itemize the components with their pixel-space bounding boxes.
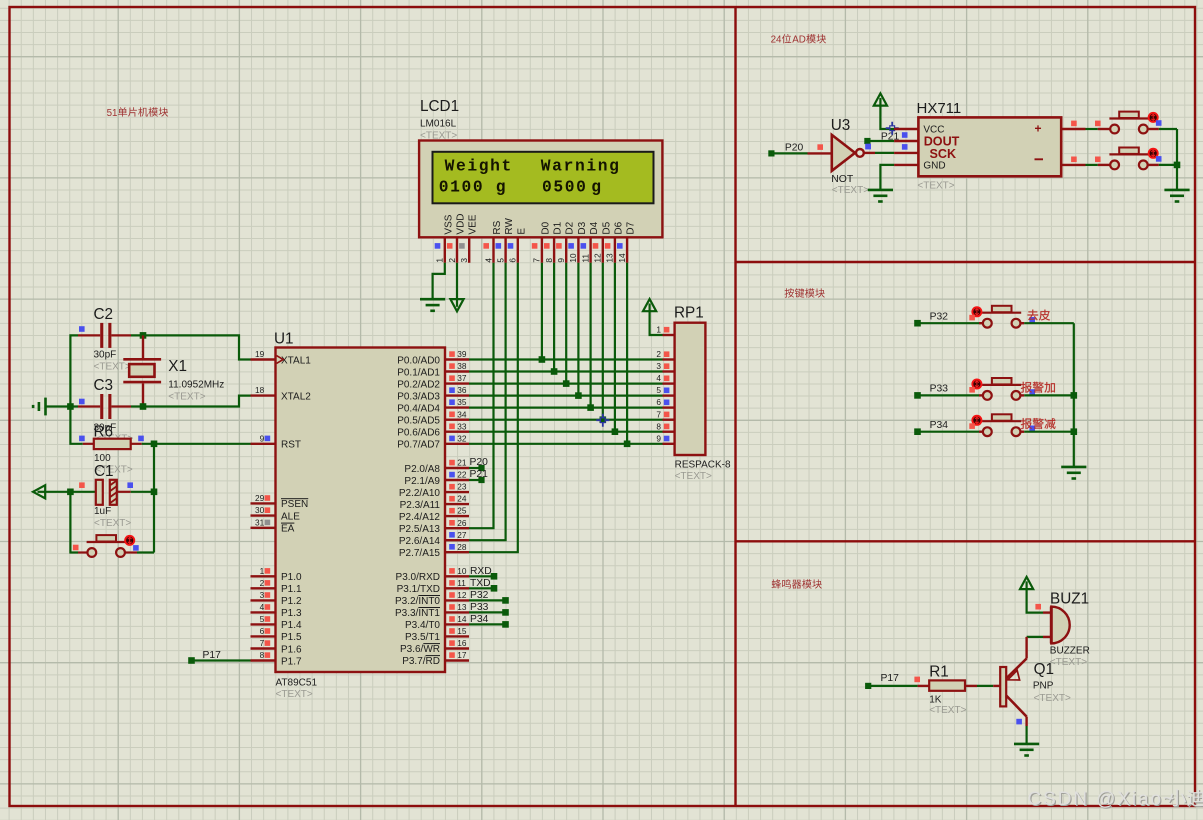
U1 pin 11 P3.1/TXD: [397, 578, 469, 595]
svg-text:P3.1/TXD: P3.1/TXD: [397, 584, 440, 595]
svg-text:D3: D3: [577, 221, 588, 234]
U1 pin 28 P2.7/A15: [399, 542, 469, 559]
LCD1 pin 6 E: [508, 228, 528, 263]
svg-text:P3.0/RXD: P3.0/RXD: [396, 572, 440, 583]
wire power to buzzer: [1027, 588, 1043, 613]
origin marker cross at HX711 VCC: [886, 122, 899, 135]
LCD1 pin 11 D4: [580, 221, 600, 262]
capacitor C2: [78, 306, 131, 373]
svg-text:1: 1: [260, 566, 265, 576]
ground below U3: [868, 190, 893, 202]
svg-text:14: 14: [617, 253, 627, 263]
svg-text:6: 6: [260, 626, 265, 636]
svg-text:3: 3: [459, 258, 469, 263]
svg-text:P32: P32: [470, 590, 489, 601]
wire LCD data D1 vertical: [553, 263, 555, 372]
svg-text:D7: D7: [626, 221, 637, 234]
U1 pin 7 P1.6: [251, 638, 303, 655]
U1 pin 35 P0.4/AD4: [397, 397, 469, 414]
wire P32 to button: [918, 322, 983, 324]
svg-text:P33: P33: [930, 384, 949, 395]
resistor R6: [79, 423, 144, 475]
svg-text:12: 12: [593, 253, 603, 263]
wire LCD data D3 vertical: [577, 263, 579, 396]
module divider horizontal 2: [736, 540, 1196, 542]
svg-text:<TEXT>: <TEXT>: [929, 705, 966, 716]
svg-text:P17: P17: [203, 650, 222, 661]
svg-text:3: 3: [656, 361, 661, 371]
U1 pin 14 P3.4/T0: [405, 614, 469, 631]
junction node C1 left: [67, 489, 74, 496]
LCD1 pin 12 D5: [593, 221, 613, 262]
wire U1 P1.7 net label P17: [188, 650, 250, 664]
svg-text:P0.6/AD6: P0.6/AD6: [397, 428, 440, 439]
wire P2.0 net label P20: [469, 457, 488, 471]
HX711 right pin - stub: [1061, 157, 1085, 165]
capacitor C1 polarized: [79, 463, 133, 529]
junction node D1/P0.1: [551, 368, 558, 375]
RP1 pin 7: [656, 409, 674, 419]
svg-text:1: 1: [435, 258, 445, 263]
svg-text:15: 15: [457, 626, 467, 636]
svg-text:12: 12: [457, 590, 467, 600]
wire U1 P0.2 to RP1 pin 4: [469, 383, 663, 385]
wire LCD pin RS vertical to U1 P2: [469, 263, 494, 528]
svg-text:9: 9: [656, 433, 661, 443]
svg-text:25: 25: [457, 506, 467, 516]
ground buzzer module: [1014, 744, 1039, 756]
svg-text:7: 7: [260, 638, 265, 648]
svg-text:P3.5/T1: P3.5/T1: [405, 632, 440, 643]
wire LCD pin RW vertical to U1 P2: [469, 263, 506, 540]
U1 pin 21 P2.0/A8: [404, 458, 469, 475]
svg-text:5: 5: [495, 258, 505, 263]
push button 报警加: [969, 378, 1035, 400]
svg-text:NOT: NOT: [831, 174, 854, 185]
terminal node P17 (buzzer): [865, 673, 899, 689]
U1 pin 12 P3.2/INT0: [395, 590, 469, 607]
svg-text:<TEXT>: <TEXT>: [168, 392, 205, 403]
svg-text:P0.3/AD3: P0.3/AD3: [397, 391, 440, 402]
svg-text:HX711: HX711: [917, 100, 962, 117]
svg-text:P0.5/AD5: P0.5/AD5: [397, 416, 440, 427]
RP1 pin 8: [656, 421, 674, 431]
svg-text:D2: D2: [565, 221, 576, 234]
svg-text:C2: C2: [94, 306, 114, 323]
buzzer BUZ1: [1043, 590, 1090, 668]
svg-text:13: 13: [457, 602, 467, 612]
svg-text:3: 3: [260, 590, 265, 600]
terminal node P34: [914, 420, 948, 435]
U1 pin 5 P1.4: [251, 614, 303, 631]
U1 pin 10 P3.0/RXD: [396, 566, 469, 583]
svg-text:1: 1: [656, 325, 661, 335]
svg-text:LM016L: LM016L: [420, 119, 457, 130]
svg-text:38: 38: [457, 361, 467, 371]
wire to button 1: [1086, 121, 1111, 129]
module title 蜂鸣器模块: [772, 579, 822, 588]
svg-text:8: 8: [544, 258, 554, 263]
svg-text:7: 7: [656, 409, 661, 419]
svg-text:9: 9: [260, 433, 265, 443]
svg-text:23: 23: [457, 482, 467, 492]
U1 pin 34 P0.5/AD5: [397, 409, 469, 426]
wire LCD pin E vertical to U1 P2: [469, 263, 518, 552]
svg-text:39: 39: [457, 349, 467, 359]
svg-text:XTAL2: XTAL2: [281, 391, 311, 402]
power arrow buzzer module: [1020, 577, 1033, 589]
svg-text:P17: P17: [881, 673, 900, 684]
wire button P34 to ground rail: [1024, 431, 1074, 433]
svg-text:27: 27: [457, 530, 467, 540]
svg-text:P34: P34: [930, 420, 949, 431]
U1 pin 27 P2.6/A14: [399, 530, 469, 547]
wire button 2 to ground rail: [1159, 164, 1177, 166]
svg-text:P2.5/A13: P2.5/A13: [399, 524, 441, 535]
junction node D4/P0.4: [587, 404, 594, 411]
svg-text:P20: P20: [470, 457, 489, 468]
svg-text:P3.4/T0: P3.4/T0: [405, 620, 440, 631]
svg-text:<TEXT>: <TEXT>: [420, 131, 457, 142]
wire C1 left down to reset button: [70, 492, 78, 553]
push button load cell 2: [1109, 148, 1161, 170]
U1 pin 31 EA: [251, 517, 295, 534]
wire U1 net label P32: [469, 590, 509, 604]
svg-text:RW: RW: [504, 218, 515, 235]
module divider vertical: [734, 7, 736, 806]
svg-text:51: 51: [107, 108, 118, 119]
svg-text:RESPACK-8: RESPACK-8: [675, 459, 731, 470]
svg-text:D0: D0: [540, 221, 551, 234]
wire Q1 emitter to ground: [1025, 726, 1027, 744]
wire button P32 to ground rail: [1024, 322, 1074, 324]
svg-text:10: 10: [457, 566, 467, 576]
svg-text:E: E: [516, 228, 527, 235]
svg-text:D1: D1: [553, 221, 564, 234]
svg-text:30: 30: [255, 505, 265, 515]
wire U1 P0.4 to RP1 pin 6: [469, 407, 663, 409]
junction node C2/X1 top: [140, 332, 147, 339]
U1 pin 13 P3.3/INT1: [395, 602, 469, 619]
svg-text:RST: RST: [281, 440, 301, 451]
HX711 right pin + stub: [1061, 121, 1085, 129]
svg-text:2: 2: [260, 578, 265, 588]
wire RP1 pin1 to power: [650, 310, 663, 335]
LCD1 pin 10 D3: [568, 221, 588, 262]
svg-text:9: 9: [556, 258, 566, 263]
RP1 pin 5: [656, 385, 674, 395]
push button reset: [73, 535, 139, 557]
U1 pin 32 P0.7/AD7: [397, 433, 469, 450]
wire HX711 GND to ground: [880, 165, 894, 190]
LCD1 pin 5 RW: [495, 218, 515, 263]
wire R1 to Q1 base: [977, 685, 1000, 687]
RP1 pin 4: [656, 373, 674, 383]
svg-text:11.0952MHz: 11.0952MHz: [168, 380, 224, 391]
U1 pin 22 P2.1/A9: [404, 470, 469, 487]
svg-text:37: 37: [457, 373, 467, 383]
svg-text:5: 5: [260, 614, 265, 624]
svg-text:<TEXT>: <TEXT>: [675, 471, 712, 482]
U1 pin 8 P1.7: [251, 650, 303, 667]
U1 pin 1 P1.0: [251, 566, 303, 583]
svg-text:P1.2: P1.2: [281, 596, 302, 607]
svg-text:P33: P33: [470, 602, 489, 613]
U1 pin 3 P1.2: [251, 590, 303, 607]
svg-text:28: 28: [457, 542, 467, 552]
wire U1 net label P34: [469, 614, 509, 628]
svg-text:0500: 0500: [542, 178, 588, 197]
wire ground rail AD module: [1174, 129, 1181, 190]
junction node D0/P0.0: [539, 356, 546, 363]
wire P20 to U3 input: [771, 152, 807, 154]
svg-text:P0.2/AD2: P0.2/AD2: [397, 379, 440, 390]
LCD1 pin 3 VEE: [459, 214, 479, 263]
LCD1 pin 2 VDD: [447, 213, 467, 262]
svg-text:4: 4: [483, 258, 493, 263]
svg-text:<TEXT>: <TEXT>: [832, 185, 869, 196]
svg-text:29: 29: [255, 493, 265, 503]
HX711 left pin stub y=164.9: [894, 164, 918, 166]
U1 pin 2 P1.1: [251, 578, 303, 595]
terminal node P20 (AD module): [768, 142, 803, 156]
svg-text:g: g: [591, 178, 602, 197]
svg-text:P34: P34: [470, 614, 489, 625]
svg-text:P1.5: P1.5: [281, 632, 302, 643]
wire U1 P0.6 to RP1 pin 8: [469, 431, 663, 433]
svg-text:Weight: Weight: [445, 157, 513, 176]
resistor pack RP1 RESPACK-8: [674, 305, 731, 482]
wire DOUT net terminal: [864, 138, 894, 149]
U1 pin 9 RST: [251, 433, 302, 450]
LCD1 pin 7 D0: [532, 221, 552, 262]
microcontroller U1 AT89C51: [274, 331, 445, 700]
U1 pin 17 P3.7/RD: [402, 650, 469, 667]
svg-text:8: 8: [260, 650, 265, 660]
svg-text:P2.0/A8: P2.0/A8: [404, 464, 440, 475]
label 报警加: [1021, 382, 1055, 393]
wire P2.1 net label P21: [469, 469, 488, 483]
wire LCD VDD to power: [456, 263, 458, 300]
junction node D5/P0.5: [600, 416, 607, 423]
LCD1 pin 14 D7: [617, 221, 637, 262]
svg-text:P1.3: P1.3: [281, 608, 302, 619]
power arrow left of C1: [33, 485, 45, 498]
wire C2 left to XTAL1 loop: [70, 335, 78, 406]
HX711 left pin stub y=141: [894, 140, 918, 142]
wire reset button to RST net: [137, 551, 154, 553]
ground key module: [1061, 467, 1086, 479]
U1 pin 25 P2.4/A12: [399, 506, 469, 523]
LCD1 pin 13 D6: [605, 221, 625, 262]
svg-text:<TEXT>: <TEXT>: [276, 689, 313, 700]
wire C2 right to U1 XTAL1: [131, 335, 251, 359]
U1 pin 39 P0.0/AD0: [397, 349, 469, 366]
LCD1 LM016L display: [419, 98, 662, 237]
U1 pin 19 XTAL1: [251, 349, 312, 366]
U1 pin 18 XTAL2: [251, 385, 312, 402]
svg-text:C3: C3: [94, 377, 114, 394]
svg-text:5: 5: [656, 385, 661, 395]
svg-text:P3.3/INT1: P3.3/INT1: [395, 608, 440, 619]
svg-text:P0.1/AD1: P0.1/AD1: [397, 367, 440, 378]
U3 input pin stub: [808, 144, 832, 153]
svg-text:U1: U1: [274, 331, 294, 348]
svg-text:32: 32: [457, 433, 467, 443]
svg-text:Warning: Warning: [541, 157, 621, 176]
power arrow above RP1: [643, 299, 656, 311]
wire LCD data D0 vertical: [541, 263, 543, 360]
svg-text:P3.6/WR: P3.6/WR: [400, 644, 440, 655]
svg-text:C1: C1: [94, 463, 114, 480]
RP1 pin 2: [656, 349, 674, 359]
svg-text:4: 4: [260, 602, 265, 612]
svg-text:VDD: VDD: [456, 213, 467, 234]
svg-text:P2.3/A11: P2.3/A11: [400, 500, 441, 511]
junction node D3/P0.3: [575, 392, 582, 399]
svg-text:1K: 1K: [929, 695, 942, 706]
wire U1 P0.7 to RP1 pin 9: [469, 443, 663, 445]
U1 pin 29 PSEN: [251, 493, 309, 510]
wire button P33 to ground rail: [1024, 394, 1074, 396]
wire R6 to U1 RST: [142, 443, 251, 445]
svg-text:P32: P32: [930, 311, 949, 322]
svg-text:2: 2: [656, 349, 661, 359]
RP1 pin 9: [656, 433, 674, 443]
wire LCD VSS to ground: [433, 263, 445, 299]
wire C3 right to U1 XTAL2: [131, 396, 251, 407]
svg-text:P2.2/A10: P2.2/A10: [399, 488, 441, 499]
svg-text:VSS: VSS: [443, 214, 454, 234]
U1 pin 23 P2.2/A10: [399, 482, 469, 499]
svg-text:2: 2: [447, 258, 457, 263]
svg-text:P3.7/RD: P3.7/RD: [402, 656, 440, 667]
wire U3 output to HX711 SCK: [864, 144, 894, 153]
svg-text:6: 6: [508, 258, 518, 263]
svg-text:31: 31: [255, 517, 265, 527]
wire LCD data D4 vertical: [589, 263, 591, 408]
LCD screen text line 1: Weight Warning: [445, 157, 621, 176]
wire U1 P0.0 to RP1 pin 2: [469, 358, 663, 360]
svg-text:RP1: RP1: [674, 305, 704, 322]
wire ground to C3: [46, 405, 78, 407]
U1 pin 33 P0.6/AD6: [397, 421, 469, 438]
push button 去皮: [969, 306, 1035, 328]
wire C1 right to RST net: [131, 491, 154, 493]
svg-text:PSEN: PSEN: [281, 499, 308, 510]
resistor R1: [914, 663, 977, 716]
terminal node P33: [914, 384, 948, 399]
svg-text:XTAL1: XTAL1: [281, 355, 311, 366]
watermark CSDN @Xiao~小迪: [1028, 789, 1203, 811]
svg-text:AT89C51: AT89C51: [276, 678, 318, 689]
wire LCD data D7 vertical: [626, 263, 628, 444]
power arrow AD module: [874, 93, 887, 105]
wire U1 net label RXD: [469, 566, 497, 580]
power arrow down below LCD VDD: [450, 299, 463, 311]
svg-text:P2.4/A12: P2.4/A12: [399, 512, 441, 523]
origin marker cross on D5 net: [596, 414, 609, 427]
wire P34 to button: [918, 431, 983, 433]
svg-text:30pF: 30pF: [94, 349, 117, 360]
push button load cell 1: [1109, 112, 1161, 134]
LCD1 pin 4 RS: [483, 220, 503, 262]
junction node C3/X1 bottom: [140, 403, 147, 410]
svg-text:16: 16: [457, 638, 467, 648]
svg-text:22: 22: [457, 470, 467, 480]
LCD1 pin 8 D1: [544, 221, 564, 262]
svg-text:P1.6: P1.6: [281, 644, 302, 655]
LCD1 pin 9 D2: [556, 221, 576, 262]
wire U1 P0.3 to RP1 pin 5: [469, 395, 663, 397]
svg-text:P21: P21: [470, 469, 489, 480]
transistor Q1 PNP: [1000, 645, 1071, 726]
wire C2 loop down to R6: [70, 407, 82, 444]
svg-text:<TEXT>: <TEXT>: [94, 518, 131, 529]
svg-text:P2.1/A9: P2.1/A9: [404, 476, 440, 487]
svg-text:P2.6/A14: P2.6/A14: [399, 536, 441, 547]
HX711 module body: [917, 100, 1062, 191]
wire buzzer to Q1 collector: [1027, 637, 1043, 645]
wire power to C1: [44, 491, 96, 493]
svg-text:R1: R1: [929, 663, 949, 680]
RP1 pin 1: [656, 325, 674, 335]
U1 pin 26 P2.5/A13: [399, 518, 469, 535]
svg-text:VEE: VEE: [468, 214, 479, 234]
svg-text:19: 19: [255, 349, 265, 359]
svg-text:<TEXT>: <TEXT>: [94, 362, 131, 373]
svg-text:AD: AD: [792, 35, 806, 46]
HX711 pin indicator DOUT: [902, 132, 908, 138]
svg-text:D6: D6: [613, 221, 624, 234]
svg-text:P1.0: P1.0: [281, 572, 302, 583]
HX711 left pin stub y=152.9: [894, 152, 918, 154]
U1 pin 4 P1.3: [251, 602, 303, 619]
svg-text:P1.4: P1.4: [281, 620, 302, 631]
svg-text:PNP: PNP: [1033, 680, 1054, 691]
svg-text:10: 10: [568, 253, 578, 263]
LCD1 pin 1 VSS: [435, 214, 455, 263]
svg-text:BUZZER: BUZZER: [1050, 646, 1090, 657]
svg-text:26: 26: [457, 518, 467, 528]
U1 pin 30 ALE: [251, 505, 301, 522]
RP1 pin 3: [656, 361, 674, 371]
svg-text:P0.4/AD4: P0.4/AD4: [397, 403, 440, 414]
module title 按键模块: [785, 288, 825, 297]
svg-text:<TEXT>: <TEXT>: [1050, 657, 1087, 668]
svg-text:RS: RS: [492, 220, 503, 234]
wire LCD data D2 vertical: [565, 263, 567, 384]
wire LCD data D5 vertical: [602, 263, 604, 420]
module title 51单片机模块: [107, 107, 169, 119]
wire U1 net label TXD: [469, 578, 497, 592]
svg-text:P0.7/AD7: P0.7/AD7: [397, 440, 440, 451]
svg-text:CSDN @Xiao~: CSDN @Xiao~: [1028, 789, 1176, 810]
svg-text:18: 18: [255, 385, 265, 395]
svg-text:P3.2/INT0: P3.2/INT0: [395, 596, 440, 607]
wire U1 P0.5 to RP1 pin 7: [469, 419, 663, 421]
U1 pin 16 P3.6/WR: [400, 638, 469, 655]
svg-text:24: 24: [457, 494, 467, 504]
svg-text:D4: D4: [589, 221, 600, 234]
svg-text:4: 4: [656, 373, 661, 383]
svg-text:LCD1: LCD1: [420, 98, 459, 115]
svg-text:8: 8: [656, 421, 661, 431]
svg-text:P2.7/A15: P2.7/A15: [399, 548, 441, 559]
terminal node P32: [914, 311, 948, 326]
wire key module ground rail: [1071, 323, 1078, 467]
wire to button 2: [1086, 157, 1111, 165]
